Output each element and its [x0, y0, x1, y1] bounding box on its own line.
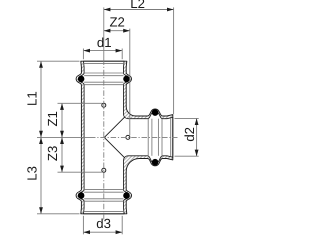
dimension Z2 [104, 30, 130, 32]
branch seal right edge [157, 119, 159, 156]
bottom bead face line lower [84, 200, 123, 202]
bottom mouth inner edge [84, 211, 124, 213]
bottom bead seal top edge [84, 191, 123, 193]
extension line bottom stop [58, 171, 102, 173]
top mouth inner edge [84, 62, 124, 64]
bottom bead seal bottom edge [84, 198, 123, 200]
svg-text:d2: d2 [182, 127, 197, 142]
seal ring branch-top [152, 109, 159, 116]
extension line fitting bottom [37, 213, 80, 215]
d2 extension top [175, 117, 199, 119]
stop indicator top [102, 103, 106, 107]
dimension Z3 [61, 137, 63, 172]
dimension d1 [83, 50, 122, 52]
svg-text:L3: L3 [25, 166, 40, 181]
dimension d2 [196, 118, 198, 156]
stop indicator branch [126, 135, 130, 139]
branch seal left edge [151, 119, 153, 156]
svg-text:d1: d1 [97, 35, 112, 50]
stop indicator bottom [102, 168, 106, 172]
branch bead face line right [161, 119, 163, 156]
fitting bore outline [79, 61, 173, 214]
svg-text:L1: L1 [25, 91, 40, 106]
bottom bead face line upper [84, 189, 123, 191]
seal ring branch-bottom [152, 159, 159, 166]
dimension d3 [83, 231, 122, 233]
svg-text:L2: L2 [130, 0, 145, 11]
seal ring top-left [78, 76, 85, 83]
svg-text:d3: d3 [96, 216, 111, 231]
d3 extension right [121, 216, 123, 235]
branch bead face line left [147, 119, 149, 156]
dimension Z1 [61, 103, 63, 137]
extension line branch stop [129, 29, 131, 136]
dimension L3 [40, 137, 42, 213]
d2 extension bottom [175, 155, 199, 157]
seal ring bottom-right [123, 192, 130, 199]
dimension L2 [104, 9, 174, 11]
bore cone lower diagonal [104, 137, 125, 158]
seal ring bottom-left [78, 192, 85, 199]
branch mouth inner edge [170, 118, 172, 156]
top bead seal bottom edge [84, 81, 123, 83]
top bead face line lower [84, 84, 123, 86]
vertical centerline [103, 7, 105, 59]
d3 extension left [82, 216, 84, 235]
bore cone upper diagonal [104, 117, 125, 137]
extension line top stop [58, 102, 102, 104]
top bead face line upper [84, 72, 123, 74]
dimension L1 [40, 61, 42, 137]
branch centerline [37, 136, 90, 138]
svg-text:Z2: Z2 [110, 14, 125, 29]
tee fitting body section (hatched walls) [76, 61, 173, 214]
extension line fitting top [37, 60, 80, 62]
svg-text:Z1: Z1 [45, 111, 60, 126]
svg-text:Z3: Z3 [45, 146, 60, 161]
seal ring top-right [123, 76, 130, 83]
top bead seal top edge [84, 75, 123, 77]
d1 extension right [121, 49, 123, 60]
extension line branch end face [173, 7, 175, 114]
d1 extension left [82, 49, 84, 60]
fitting outer outline [76, 61, 173, 214]
